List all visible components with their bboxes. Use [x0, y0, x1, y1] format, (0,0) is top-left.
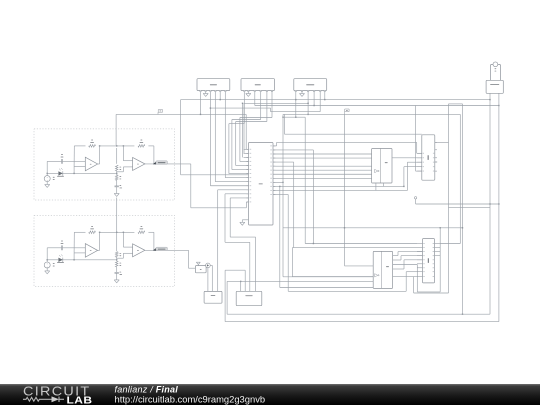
wire v462.5 to bottom rail: [462, 104, 464, 314]
motor box M: [204, 291, 222, 303]
wire V1 rail down to MCU row: [181, 174, 249, 176]
wire MCU pin14 from amplifier block 1 output: [246, 201, 248, 203]
U2 pin name labels: [423, 152, 424, 155]
wire SW3 pin1 drop to v305.2: [295, 92, 297, 117]
ground under source: [45, 184, 50, 186]
wire to MCU pin1: [245, 114, 247, 149]
wire M2 out3 to U3: [393, 268, 404, 270]
dashed boundary box amplifier block: [34, 215, 175, 286]
wire to display pin4: [240, 281, 242, 291]
resistor R4 in divider chain: [116, 257, 118, 261]
wire v460.3 to decoder U3 right pin: [459, 114, 461, 243]
wire battery meter pin1 down: [489, 93, 491, 314]
wire MCU pin13 staircase to display box: [230, 197, 248, 199]
wire to MCU pin4: [239, 118, 241, 162]
ground under SW2 pin 2: [247, 92, 249, 94]
voltage source V: [46, 260, 48, 262]
LED driver box: [195, 266, 206, 273]
capacitor C1 input: [47, 247, 61, 249]
op-amp OA2: [133, 244, 145, 257]
wire M2 out2 to U3: [393, 259, 401, 261]
net tag LED_out2: [154, 248, 157, 251]
voltage source V: [46, 173, 48, 175]
wire M1 bottom pin to row net B: [375, 183, 377, 190]
wire VCC branch v305.2: [304, 117, 306, 243]
wire bottom rail y=314.2: [227, 313, 490, 315]
resistor R1: [89, 231, 96, 234]
wire rail y=103.3: [244, 102, 308, 104]
wire to MCU pin8: [224, 92, 226, 178]
wire to MCU pin6: [231, 120, 233, 170]
IC U2 decoder: [422, 135, 435, 180]
net tag LED_out1: [154, 162, 157, 165]
wire SW2 pin1 staircase: [243, 92, 245, 124]
wire M2 pin4 feed: [227, 280, 373, 282]
wire SW3 pin5 drop: [319, 92, 321, 112]
wire SW3 pin4 drop: [313, 92, 315, 106]
wire to display pin3: [225, 269, 245, 271]
wire to MCU pin10: [209, 108, 211, 186]
display box: [236, 291, 262, 305]
wire block2 output to LED driver: [188, 250, 190, 268]
svg-text:LAB: LAB: [67, 396, 93, 405]
wire MCU right pin5 to decoder U3 pin2: [273, 161, 294, 163]
wire op-amp2 output with net tag: [145, 163, 191, 165]
wire M1 output to U2: [392, 157, 422, 159]
CircuitLab logo resistor and diode glyph: [23, 397, 64, 402]
wire MCU right pin7 to mux M1 pin4: [273, 169, 372, 171]
LED D2: [206, 263, 211, 268]
switch box SW2 (minutes): [241, 79, 275, 91]
wire vertical rail through amplifier blocks: [115, 114, 117, 145]
wire MCU right pin12 to decoder U2 right: [273, 189, 407, 191]
wire MCU right pin8 to mux M1 pin5: [273, 173, 372, 175]
battery source B1: [491, 64, 501, 81]
battery meter box: [486, 80, 503, 93]
U3 pin name labels: [423, 242, 424, 245]
wire MCU pin12 staircase to display box: [225, 193, 249, 195]
wire VCC branch to U2 top pin: [284, 114, 286, 134]
ground at MCU bottom left: [242, 219, 248, 221]
wire SW1 pin5 drop: [219, 92, 221, 100]
wire rail y=227.8: [283, 227, 463, 229]
wire 5V rail branch to M2 pin1: [345, 265, 374, 267]
switch box SW1 (hours): [197, 79, 230, 91]
wire MCU right pin6 to mux M1 pin3: [273, 165, 372, 167]
wire battery meter pin2 down: [498, 93, 500, 321]
capacitor C2 in divider chain: [116, 180, 118, 186]
wire to MCU pin9: [214, 92, 216, 182]
mux M1: [372, 149, 392, 184]
wire feedback to op-amp2 - input: [122, 232, 124, 247]
ground under divider chain: [114, 193, 119, 195]
wire SW1 pin3 staircase: [209, 92, 211, 108]
wire MCU right pin10 to mux M2: [273, 181, 283, 183]
wire M2 output loop right: [393, 264, 418, 266]
resistor R4 in divider chain: [116, 171, 118, 175]
ground under SW3 pin 2: [301, 92, 303, 94]
wire chain tap to op-amp2 + input: [117, 171, 124, 173]
capacitor C2 in divider chain: [116, 267, 118, 273]
feedback rail with resistors: [74, 231, 85, 233]
wire op-amp2 output with net tag: [145, 249, 189, 251]
wire MCU right pin13 bottom route: [273, 194, 288, 196]
wire U2 right pin3 to ground rail: [435, 161, 437, 163]
wire to MCU pin5: [235, 122, 237, 166]
wire source to input: [46, 161, 48, 173]
dashed boundary box amplifier block: [34, 129, 175, 200]
wire SW3 pin6 drop: [324, 92, 326, 100]
wire feedback to op-amp2 - input: [122, 146, 124, 161]
op-amp OA2: [133, 157, 145, 170]
capacitor C1 input: [47, 160, 61, 162]
wire to MCU pin3: [242, 103, 244, 157]
resistor R3 in divider chain: [115, 252, 118, 258]
resistor R3 in divider chain: [115, 165, 118, 171]
mux M2: [373, 251, 392, 288]
wire SW2 pin5 staircase: [266, 92, 268, 122]
IC U1 pin name labels: [250, 148, 252, 151]
op-amp OA1: [85, 244, 97, 258]
gate symbol inside M1: [375, 169, 378, 172]
ground under source: [45, 270, 50, 272]
wire V rail branch to U2 pin5: [415, 106, 417, 172]
wire to op-amp1 + input: [73, 167, 75, 174]
node 5V flag rail center: [282, 114, 284, 276]
wire to op-amp1 + input: [73, 253, 75, 260]
ground under SW1 pin 2: [205, 92, 207, 94]
wire MCU right pin2 to decoder U3: [273, 149, 313, 151]
wire op-amp1 output feedback: [98, 163, 100, 165]
resistor R2: [138, 231, 145, 234]
feedback rail with resistors: [74, 145, 85, 147]
wire SW2 pin6 staircase: [271, 92, 273, 118]
wire source to input: [46, 248, 48, 260]
wire MCU right pin3 to mux M1 pin1: [273, 153, 372, 155]
wire bottom rail y=321.6: [225, 321, 499, 323]
wire MCU right pin9 to mux M1 pin6: [273, 177, 372, 179]
photodiode D1: [47, 259, 58, 261]
op-amp OA1: [85, 157, 97, 171]
IC U1 microcontroller: [249, 143, 274, 226]
wire MCU right pin1 to decoder U2: [273, 145, 277, 147]
wire V1 rail vertical: [180, 100, 182, 175]
wire row net A up to U2 pin4: [403, 167, 405, 187]
wire to MCU pin7: [228, 124, 230, 174]
switch box SW3 (digits): [294, 79, 327, 91]
wire op-amp1 output feedback: [98, 249, 100, 251]
wire MCU right pin4 to mux M1 pin2: [273, 157, 372, 159]
wire rail net V1 y=99.6: [181, 99, 490, 101]
wire MCU pin11 to motor driver: [218, 189, 249, 191]
resistor R2: [138, 145, 145, 148]
wire rail y=203.3: [416, 203, 499, 205]
node rail y=114.4 with 5V flag: [116, 113, 246, 115]
wire SW1 pin1 drop: [200, 92, 202, 114]
wire MCU right pin11 to mux M2 and decoder U3: [273, 185, 404, 187]
resistor R1: [89, 145, 96, 148]
ground above LED driver: [196, 261, 200, 263]
ground symbol right section: [414, 197, 416, 199]
svg-text:http://circuitlab.com/c9ramg2g: http://circuitlab.com/c9ramg2g3gnvb: [115, 393, 266, 404]
wire v448.5 loop: [448, 104, 450, 293]
gate symbol inside M2: [375, 274, 378, 277]
IC U3 decoder: [423, 239, 435, 283]
wire U2 right pin1: [435, 141, 449, 143]
photodiode D1: [47, 172, 58, 174]
wire left loop v227.1: [226, 281, 228, 314]
wire LED to motor box: [207, 268, 209, 292]
wire M1 bottom pin to row net A: [382, 183, 384, 186]
footer black bar: [0, 384, 540, 405]
wire chain tap to op-amp2 + input: [117, 257, 124, 259]
wire rail y=105.5: [255, 105, 499, 107]
wire SW3 pin3 drop: [307, 92, 309, 114]
ground under divider chain: [114, 279, 119, 281]
wire SW2 pin3 drop: [254, 92, 256, 106]
wire SW2 pin4 staircase: [260, 92, 262, 120]
wire M2 out1 to U3: [393, 255, 398, 257]
wire left loop v225.1: [224, 270, 226, 321]
wire to MCU pin2: [243, 103, 245, 153]
